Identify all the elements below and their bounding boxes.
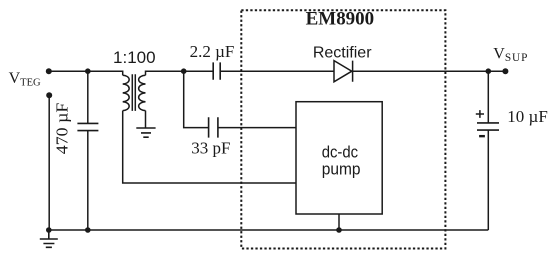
- wire 2.2uF to diode anode: [220, 70, 334, 72]
- ground (bottom left): [40, 230, 58, 247]
- wire bottom ground rail: [49, 229, 489, 231]
- node VTEG positive terminal: [46, 68, 52, 74]
- wire VSUP junction down to 10uF: [487, 71, 489, 123]
- label minus sign 10uF: [479, 135, 485, 137]
- wire dc-dc pump bottom pin: [338, 214, 340, 230]
- wire 470uF branch bottom: [87, 131, 89, 230]
- node VTEG negative terminal: [46, 92, 52, 98]
- wire 33pF to dc-dc pump: [218, 127, 296, 129]
- wire diode cathode to VSUP: [353, 70, 506, 72]
- wire secondary top to 2.2uF: [146, 71, 214, 75]
- inductor L1 primary winding: [123, 75, 129, 110]
- node junction 470uF top: [85, 68, 91, 74]
- label plus sign 10uF: [476, 110, 484, 118]
- transformer core: [132, 74, 135, 111]
- svg-text:EM8900: EM8900: [306, 10, 375, 30]
- capacitor C3 2.2uF plates: [213, 62, 220, 79]
- svg-text:10 µF: 10 µF: [507, 107, 548, 126]
- node junction 33pF branch: [181, 68, 187, 74]
- svg-text:pump: pump: [322, 160, 361, 179]
- node junction VSUP: [486, 68, 492, 74]
- EM8900 dashed boundary box U1: [241, 10, 445, 248]
- svg-text:1:100: 1:100: [113, 48, 156, 67]
- svg-text:Rectifier: Rectifier: [313, 44, 372, 61]
- node VSUP terminal: [502, 68, 508, 74]
- inductor L2 secondary winding: [139, 75, 146, 110]
- wire 10uF bottom down to rail: [487, 130, 489, 230]
- node junction 470uF bottom: [85, 227, 91, 233]
- wire secondary bottom to ground: [145, 111, 147, 128]
- node junction dc-dc pump pin: [336, 227, 342, 233]
- capacitor C2 33pF plates: [209, 117, 218, 137]
- svg-text:33 pF: 33 pF: [191, 139, 230, 158]
- svg-text:VSUP: VSUP: [493, 46, 528, 65]
- node junction bottom left ground: [46, 227, 52, 233]
- wire 470uF branch top: [87, 71, 89, 123]
- capacitor C4 10uF plates: [477, 123, 499, 130]
- wire primary bottom to dc-dc pump: [123, 111, 296, 183]
- ground (transformer secondary): [136, 128, 155, 137]
- wire top rail left (VTEG to transformer primary): [49, 71, 123, 75]
- wire 33pF branch from top rail junction: [184, 71, 209, 127]
- svg-text:470 µF: 470 µF: [52, 103, 71, 155]
- wire VTEG negative terminal down: [48, 95, 50, 230]
- dc-dc pump box U2: [296, 102, 382, 214]
- svg-text:2.2 µF: 2.2 µF: [190, 42, 235, 61]
- diode D1 rectifier: [334, 61, 353, 82]
- svg-text:VTEG: VTEG: [9, 70, 41, 89]
- capacitor C1 470uF plates: [77, 123, 98, 130]
